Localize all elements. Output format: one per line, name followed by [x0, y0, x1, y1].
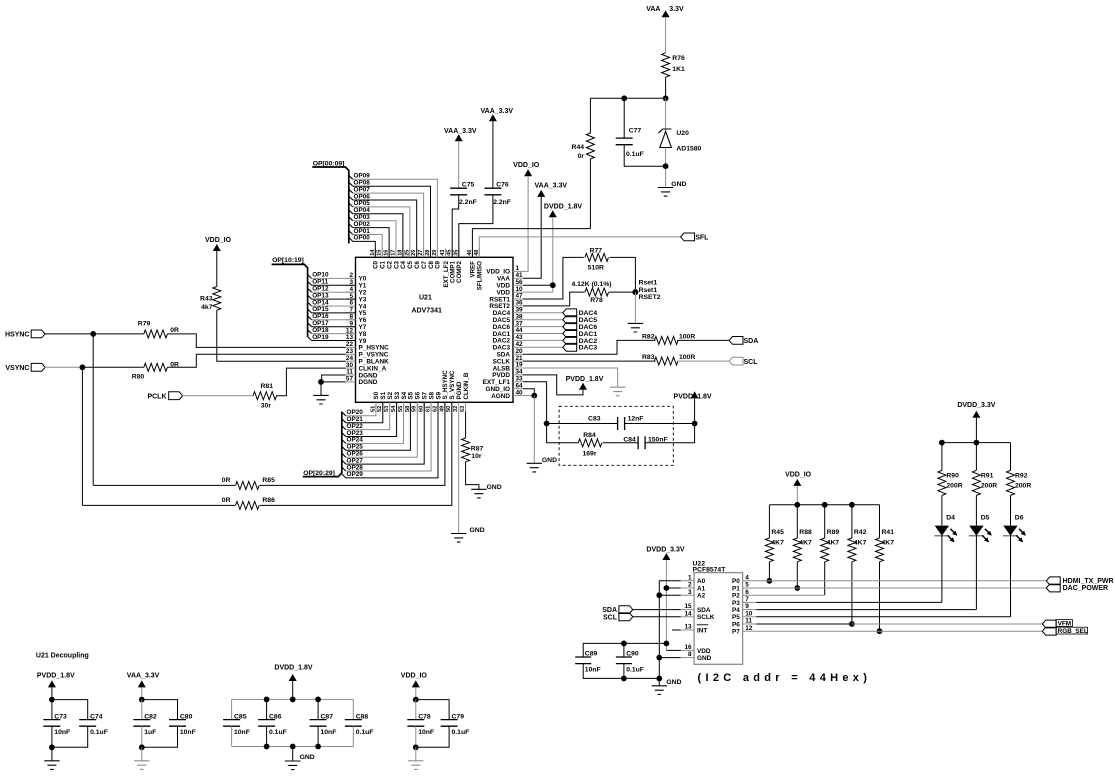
svg-text:0R: 0R — [222, 477, 231, 484]
svg-text:0.1uF: 0.1uF — [452, 729, 470, 736]
svg-text:C9: C9 — [435, 260, 442, 268]
svg-text:R77: R77 — [590, 247, 603, 254]
svg-text:4k7: 4k7 — [201, 304, 213, 311]
svg-text:Rset1: Rset1 — [639, 279, 658, 286]
svg-text:5: 5 — [745, 582, 749, 589]
svg-text:GND: GND — [666, 679, 681, 686]
svg-text:4.12K (0.1%): 4.12K (0.1%) — [571, 281, 611, 288]
svg-text:SCL: SCL — [603, 614, 618, 621]
svg-text:C86: C86 — [269, 714, 282, 721]
svg-text:12nF: 12nF — [628, 415, 644, 422]
svg-text:SCL: SCL — [744, 359, 759, 366]
svg-text:SDA: SDA — [602, 607, 617, 614]
svg-text:R82: R82 — [642, 333, 655, 340]
svg-text:GND: GND — [542, 457, 557, 464]
svg-text:VDD: VDD — [697, 648, 711, 655]
svg-text:SDA: SDA — [697, 607, 711, 614]
svg-text:R80: R80 — [132, 373, 145, 380]
svg-text:(I2C addr = 44Hex): (I2C addr = 44Hex) — [698, 672, 872, 684]
svg-text:U21 Decoupling: U21 Decoupling — [36, 652, 89, 659]
svg-text:VAA_3.3V: VAA_3.3V — [127, 673, 160, 680]
svg-text:RSET2: RSET2 — [639, 294, 661, 301]
svg-text:C80: C80 — [180, 714, 193, 721]
svg-text:DAC3: DAC3 — [579, 345, 598, 352]
svg-text:ADV7341: ADV7341 — [412, 307, 442, 314]
svg-text:1K1: 1K1 — [672, 66, 685, 73]
svg-text:200R: 200R — [981, 483, 997, 490]
svg-text:3.3V: 3.3V — [669, 6, 684, 13]
svg-text:0.1uF: 0.1uF — [356, 729, 374, 736]
svg-text:R87: R87 — [471, 446, 484, 453]
svg-text:C74: C74 — [90, 714, 103, 721]
svg-text:GND: GND — [697, 655, 712, 662]
svg-text:VDD_IO: VDD_IO — [401, 673, 428, 680]
svg-text:C79: C79 — [452, 714, 465, 721]
svg-text:P5: P5 — [732, 614, 740, 621]
svg-text:GND: GND — [300, 754, 315, 761]
svg-text:SFL/MISO: SFL/MISO — [477, 261, 484, 290]
svg-text:AD1580: AD1580 — [676, 145, 701, 152]
svg-text:43: 43 — [440, 250, 446, 256]
svg-text:6: 6 — [745, 589, 749, 596]
svg-text:C87: C87 — [321, 714, 334, 721]
svg-text:2: 2 — [688, 582, 692, 589]
svg-text:PVDD_1.8V: PVDD_1.8V — [37, 673, 75, 680]
svg-text:VDD_IO: VDD_IO — [785, 471, 812, 478]
svg-text:SDA: SDA — [744, 338, 759, 345]
svg-text:A2: A2 — [697, 593, 706, 600]
svg-text:VAA: VAA — [646, 6, 660, 13]
svg-text:0.1uF: 0.1uF — [90, 729, 108, 736]
svg-text:CLKIN_B: CLKIN_B — [463, 372, 470, 399]
svg-text:DVDD_3.3V: DVDD_3.3V — [957, 402, 995, 409]
svg-text:R81: R81 — [261, 383, 274, 390]
svg-text:HSYNC: HSYNC — [5, 332, 30, 339]
svg-text:A1: A1 — [697, 585, 706, 592]
svg-text:C90: C90 — [626, 651, 639, 658]
svg-text:R83: R83 — [642, 354, 655, 361]
svg-text:R45: R45 — [771, 529, 784, 536]
svg-text:R79: R79 — [138, 320, 151, 327]
svg-text:1uF: 1uF — [144, 729, 156, 736]
svg-text:10nF: 10nF — [180, 729, 196, 736]
svg-text:VSYNC: VSYNC — [5, 365, 29, 372]
svg-text:10nF: 10nF — [321, 729, 337, 736]
svg-text:10nF: 10nF — [234, 729, 250, 736]
svg-text:200R: 200R — [946, 483, 962, 490]
svg-text:10nF: 10nF — [54, 729, 70, 736]
svg-text:9: 9 — [745, 603, 749, 610]
svg-text:150nF: 150nF — [648, 437, 668, 444]
svg-text:P1: P1 — [732, 585, 740, 592]
svg-text:OP[10:19]: OP[10:19] — [272, 257, 304, 264]
svg-text:R88: R88 — [799, 529, 812, 536]
svg-text:R43: R43 — [200, 296, 213, 303]
svg-text:VDD_IO: VDD_IO — [513, 162, 540, 169]
svg-text:R41: R41 — [882, 529, 895, 536]
svg-text:C89: C89 — [585, 651, 598, 658]
svg-text:OP29: OP29 — [347, 471, 364, 478]
svg-text:7: 7 — [745, 596, 749, 603]
svg-text:Rset1: Rset1 — [639, 287, 658, 294]
svg-text:P2: P2 — [732, 593, 740, 600]
svg-text:200R: 200R — [1015, 483, 1031, 490]
svg-text:R84: R84 — [583, 432, 596, 439]
svg-text:C83: C83 — [588, 415, 601, 422]
svg-text:VDD_IO: VDD_IO — [205, 237, 232, 244]
svg-text:PCF8574T: PCF8574T — [693, 567, 727, 574]
svg-text:13: 13 — [684, 624, 692, 631]
svg-text:D5: D5 — [981, 514, 990, 521]
svg-text:DVDD_1.8V: DVDD_1.8V — [544, 203, 582, 210]
svg-text:R90: R90 — [946, 472, 959, 479]
svg-text:10nF: 10nF — [418, 729, 434, 736]
svg-text:D6: D6 — [1015, 514, 1024, 521]
svg-text:P3: P3 — [732, 600, 740, 607]
svg-text:R76: R76 — [672, 55, 685, 62]
svg-text:DAC_POWER: DAC_POWER — [1063, 585, 1109, 592]
svg-text:0.1uF: 0.1uF — [626, 151, 644, 158]
svg-text:R44: R44 — [572, 144, 585, 151]
svg-text:12: 12 — [745, 625, 753, 632]
svg-text:10: 10 — [745, 610, 753, 617]
svg-text:C82: C82 — [144, 714, 157, 721]
svg-text:10r: 10r — [471, 453, 482, 460]
svg-text:100R: 100R — [679, 333, 695, 340]
svg-text:DVDD_3.3V: DVDD_3.3V — [646, 547, 684, 554]
svg-text:C73: C73 — [54, 714, 67, 721]
svg-text:PVDD: PVDD — [674, 393, 693, 400]
svg-text:30r: 30r — [261, 403, 272, 410]
svg-text:C84: C84 — [623, 437, 636, 444]
svg-text:4K7: 4K7 — [771, 539, 784, 546]
svg-text:HDMI_TX_PWR: HDMI_TX_PWR — [1063, 578, 1114, 585]
svg-text:C76: C76 — [496, 181, 509, 188]
svg-text:100R: 100R — [679, 354, 695, 361]
svg-text:U21: U21 — [419, 295, 432, 302]
svg-text:8: 8 — [688, 651, 692, 658]
svg-text:4K7: 4K7 — [854, 539, 867, 546]
svg-text:0.1uF: 0.1uF — [626, 666, 644, 673]
svg-text:R86: R86 — [262, 497, 275, 504]
svg-text:PCLK: PCLK — [147, 393, 166, 400]
svg-text:U20: U20 — [676, 130, 689, 137]
svg-text:40: 40 — [516, 389, 524, 396]
svg-text:1.8V: 1.8V — [697, 393, 712, 400]
svg-text:10nF: 10nF — [585, 666, 601, 673]
svg-text:3: 3 — [688, 589, 692, 596]
svg-text:R89: R89 — [827, 529, 840, 536]
svg-text:C88: C88 — [356, 714, 369, 721]
svg-text:VAA_3.3V: VAA_3.3V — [481, 108, 514, 115]
svg-text:GND: GND — [671, 181, 686, 188]
svg-text:0r: 0r — [578, 153, 585, 160]
svg-text:PVDD_1.8V: PVDD_1.8V — [566, 376, 604, 383]
svg-text:4K7: 4K7 — [882, 539, 895, 546]
svg-text:D4: D4 — [946, 514, 955, 521]
svg-text:R85: R85 — [262, 477, 275, 484]
svg-text:R92: R92 — [1015, 472, 1028, 479]
svg-text:11: 11 — [745, 618, 752, 625]
svg-text:169r: 169r — [583, 451, 597, 458]
svg-text:R42: R42 — [854, 529, 867, 536]
svg-text:SFL: SFL — [695, 235, 709, 242]
svg-text:GND: GND — [470, 527, 485, 534]
svg-text:VFM: VFM — [1058, 621, 1072, 628]
svg-text:4K7: 4K7 — [827, 539, 840, 546]
svg-text:GND: GND — [487, 484, 502, 491]
svg-text:P6: P6 — [732, 621, 740, 628]
svg-text:VAA_3.3V: VAA_3.3V — [535, 183, 568, 190]
svg-text:INT: INT — [697, 627, 707, 634]
svg-text:C75: C75 — [462, 181, 475, 188]
svg-text:2.2nF: 2.2nF — [493, 199, 511, 206]
svg-text:P7: P7 — [732, 629, 740, 636]
svg-text:32: 32 — [453, 406, 459, 412]
svg-text:SCLK: SCLK — [697, 614, 715, 621]
svg-text:DGND: DGND — [359, 379, 378, 386]
svg-text:OP19: OP19 — [312, 334, 329, 341]
svg-text:A0: A0 — [697, 578, 706, 585]
svg-text:4K7: 4K7 — [799, 539, 812, 546]
svg-text:COMP2: COMP2 — [456, 260, 463, 283]
svg-text:R91: R91 — [981, 472, 994, 479]
svg-text:14: 14 — [684, 610, 692, 617]
svg-text:16: 16 — [684, 644, 692, 651]
svg-text:0R: 0R — [170, 327, 179, 334]
svg-text:4: 4 — [745, 574, 749, 581]
svg-text:DVDD_1.8V: DVDD_1.8V — [274, 665, 312, 672]
svg-text:0R: 0R — [222, 497, 231, 504]
svg-text:C78: C78 — [418, 714, 431, 721]
svg-text:OP00: OP00 — [354, 235, 371, 242]
svg-text:57: 57 — [346, 376, 354, 383]
svg-text:2.2nF: 2.2nF — [459, 199, 477, 206]
svg-text:C85: C85 — [234, 714, 247, 721]
svg-text:0.1uF: 0.1uF — [269, 729, 287, 736]
svg-text:R78: R78 — [590, 297, 603, 304]
svg-text:63: 63 — [460, 406, 466, 412]
svg-text:1: 1 — [688, 574, 692, 581]
svg-text:AGND: AGND — [491, 393, 510, 400]
svg-text:RGB_SEL: RGB_SEL — [1058, 628, 1088, 635]
svg-text:P0: P0 — [732, 578, 740, 585]
svg-text:510R: 510R — [588, 264, 604, 271]
svg-text:VAA_3.3V: VAA_3.3V — [444, 128, 477, 135]
svg-text:C77: C77 — [629, 127, 642, 134]
svg-text:15: 15 — [684, 603, 692, 610]
svg-text:P4: P4 — [732, 607, 740, 614]
